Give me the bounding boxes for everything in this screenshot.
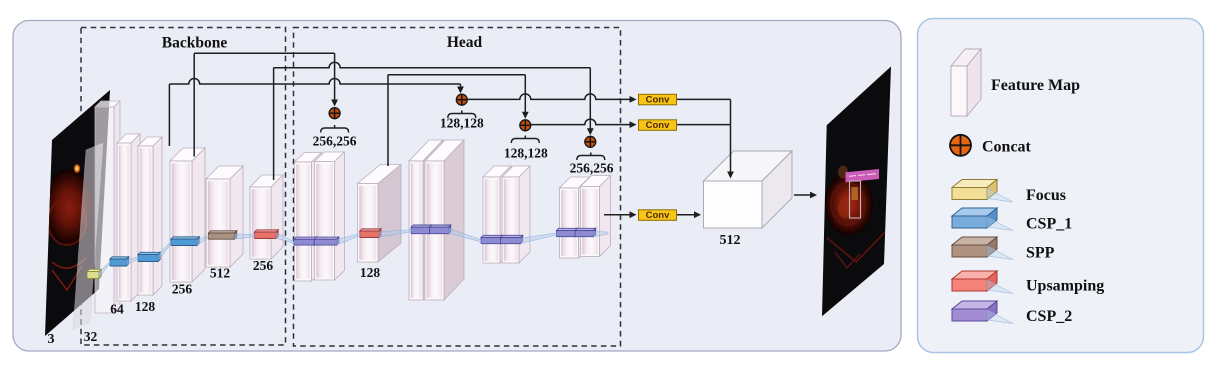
- wire C to concat2: [169, 79, 460, 85]
- bracket under concat4: [577, 153, 605, 161]
- svg-text:Conv: Conv: [646, 94, 670, 105]
- beam csp1-256 to spp: [197, 236, 209, 246]
- svg-text:256,256: 256,256: [313, 134, 357, 149]
- head pair3 box A: [483, 166, 511, 263]
- concat node 3: [520, 120, 531, 131]
- conv box 2: [639, 120, 677, 131]
- csp2 slab pair4 B: [575, 228, 596, 236]
- svg-text:Upsamping: Upsamping: [1026, 278, 1104, 295]
- svg-text:256: 256: [253, 258, 274, 273]
- arrowhead into conv1: [630, 96, 637, 103]
- feature map 32: [95, 101, 120, 313]
- backbone feature map 256: [170, 148, 205, 282]
- wire conv1 to cube: [677, 98, 731, 100]
- svg-text:512: 512: [210, 266, 231, 281]
- legend feature map icon: [951, 49, 981, 116]
- head pair1 box A: [295, 153, 322, 282]
- legend concat icon: [950, 135, 971, 156]
- beam pair1 to head128: [337, 234, 360, 245]
- beam focus to csp1-64: [99, 262, 110, 278]
- svg-text:CSP_2: CSP_2: [1026, 308, 1072, 325]
- wire drop into concat1: [331, 53, 338, 106]
- wire drop into concat2: [457, 84, 464, 94]
- svg-text:Conv: Conv: [646, 210, 670, 221]
- output cube 512: [704, 151, 793, 228]
- upsamping slab on 256b: [255, 230, 279, 239]
- csp2 slab pair3 A: [481, 235, 503, 243]
- svg-text:64: 64: [110, 302, 124, 317]
- wire E concat3 to conv2: [531, 119, 630, 124]
- output image: [822, 67, 891, 317]
- svg-text:128,128: 128,128: [504, 146, 548, 161]
- legend focus slab: [952, 180, 997, 200]
- concat node 2: [456, 94, 467, 105]
- svg-text:Focus: Focus: [1026, 187, 1066, 204]
- translucent slice plane: [73, 143, 103, 329]
- wire conv2 to cube: [677, 124, 731, 126]
- wire B: [274, 62, 591, 68]
- backbone feature map 64: [117, 134, 140, 301]
- legend upsamping slab: [952, 271, 997, 291]
- csp2 slab pair3 B: [501, 235, 523, 243]
- wire drop into concat3: [522, 75, 529, 119]
- bracket under concat2: [448, 111, 476, 119]
- bracket under concat1: [321, 125, 349, 133]
- legend spp slab beam: [987, 246, 1013, 260]
- beam spp to upsamping: [235, 234, 255, 239]
- svg-text:Feature Map: Feature Map: [991, 77, 1080, 94]
- svg-text:SPP: SPP: [1026, 245, 1055, 262]
- svg-text:128,128: 128,128: [440, 116, 484, 131]
- svg-text:Backbone: Backbone: [162, 35, 228, 52]
- csp2 slab pair4 A: [557, 228, 578, 236]
- focus slab: [87, 269, 101, 278]
- legend spp slab: [952, 237, 997, 257]
- wire riser from 256 top: [168, 84, 170, 146]
- svg-text:Concat: Concat: [982, 139, 1032, 156]
- svg-text:128: 128: [360, 265, 381, 280]
- csp1 slab on 64: [110, 257, 129, 266]
- head feature map 128: [358, 165, 402, 263]
- legend upsamping slab beam: [987, 280, 1013, 294]
- beam upsamping to pair1: [276, 233, 294, 243]
- legend csp2 slab: [952, 301, 997, 321]
- legend csp1 slab: [952, 208, 997, 228]
- beam pair3 to pair4: [521, 233, 557, 243]
- bracket under concat3: [511, 136, 539, 144]
- wire drop into cube: [727, 99, 734, 178]
- beam head128 to pair2: [379, 230, 411, 237]
- backbone feature map 128: [138, 137, 162, 295]
- wire A top: [194, 52, 334, 54]
- svg-text:CSP_1: CSP_1: [1026, 216, 1072, 233]
- backbone dashed box: [81, 28, 286, 346]
- spp slab on 512: [209, 231, 237, 239]
- head pair4 box B: [581, 176, 611, 257]
- beam csp1-128 to csp1-256: [158, 242, 171, 261]
- wire conv3 to cube: [677, 211, 702, 218]
- main diagram panel: [13, 21, 901, 352]
- wire head output to conv3: [604, 211, 637, 218]
- svg-text:Conv: Conv: [646, 120, 670, 131]
- svg-text:Head: Head: [447, 34, 483, 51]
- conv box 3: [639, 210, 677, 221]
- wire riser from backbone 256b: [273, 68, 275, 180]
- conv box 1: [639, 94, 677, 105]
- wire drop into concat4: [587, 68, 594, 136]
- head pair4 box A: [560, 177, 590, 258]
- backbone feature map 512: [206, 166, 243, 267]
- beam pair4 out: [594, 231, 609, 236]
- input image: [44, 90, 110, 336]
- legend csp2 slab beam: [987, 310, 1013, 324]
- svg-text:256,256: 256,256: [570, 161, 614, 176]
- head dashed box: [294, 28, 621, 347]
- concat node 4: [585, 136, 596, 147]
- beam csp1-64 to csp1-128: [127, 257, 139, 265]
- svg-text:3: 3: [48, 332, 55, 347]
- csp2 slab pair2 B: [430, 225, 451, 234]
- csp1 slab on 256: [171, 237, 199, 246]
- svg-text:256: 256: [172, 282, 193, 297]
- head pair3 box B: [502, 166, 530, 263]
- backbone feature map 256b: [250, 175, 283, 259]
- svg-text:32: 32: [84, 329, 98, 344]
- wire riser from backbone P4: [193, 53, 195, 156]
- upsamping slab on head 128: [360, 229, 381, 238]
- legend panel: [918, 19, 1204, 353]
- legend csp1 slab beam: [987, 217, 1013, 231]
- csp2 slab pair2 A: [411, 225, 432, 234]
- concat node 1: [329, 108, 340, 119]
- wire riser from head 128: [387, 75, 389, 166]
- beam pair2 to pair3: [449, 228, 482, 242]
- csp2 slab pair1 A: [294, 237, 317, 245]
- wire D concat2 to conv1: [468, 94, 631, 100]
- wire cube to output image: [794, 192, 817, 199]
- arrowhead into conv2: [630, 121, 637, 128]
- head pair2 box A: [409, 140, 443, 300]
- legend focus slab beam: [987, 189, 1013, 203]
- csp2 slab pair1 B: [314, 237, 339, 245]
- svg-text:512: 512: [720, 233, 741, 248]
- head pair1 box B: [315, 152, 345, 280]
- wire F to concat3: [388, 74, 525, 76]
- head pair2 box B: [425, 140, 464, 300]
- svg-text:128: 128: [135, 299, 156, 314]
- csp1 slab on 128: [138, 252, 160, 261]
